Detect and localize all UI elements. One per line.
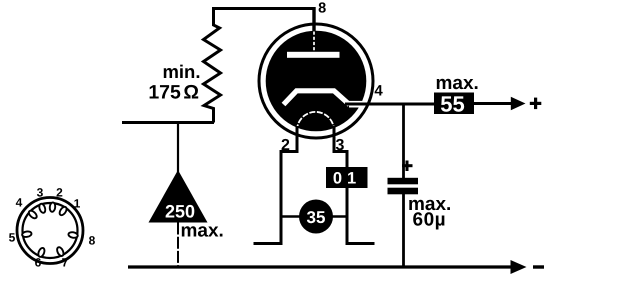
socket pin slot 5 [22, 231, 32, 238]
output box 55 [434, 93, 474, 115]
tube inner black disc [266, 31, 367, 132]
svg-text:35: 35 [307, 208, 326, 227]
svg-text:3: 3 [37, 185, 44, 199]
wire: junction down to surge triangle [177, 121, 179, 172]
svg-text:2: 2 [56, 185, 63, 199]
heater dome (white arc) [297, 112, 334, 131]
socket pin slot 8 [68, 231, 78, 238]
socket pin slot 7 [56, 246, 65, 257]
tube envelope circle [259, 24, 373, 138]
anode lead from pin 8 (outside) [312, 7, 315, 33]
wire: left input stub [122, 121, 214, 124]
white halo for pin4 wire over disc [349, 101, 364, 108]
wire: junction down to capacitor [402, 104, 405, 178]
anode lead inside disc (white dashes) [313, 32, 315, 53]
svg-text:min.: min. [162, 61, 200, 82]
tube socket diagram [9, 185, 96, 269]
svg-text:5: 5 [9, 230, 16, 244]
surge indicator triangle 250 max [149, 170, 208, 223]
tube V1 [254, 1, 384, 244]
svg-text:3: 3 [336, 137, 345, 154]
svg-text:60µ: 60µ [413, 210, 447, 231]
wire: capacitor to bottom rail [402, 194, 405, 267]
capacitor C1: plus sign [402, 161, 413, 172]
socket inner circle [23, 203, 78, 258]
svg-text:7: 7 [62, 255, 69, 269]
svg-text:1: 1 [74, 196, 81, 210]
wire: triangle to bottom rail [177, 223, 179, 268]
anode bar [287, 52, 340, 58]
svg-text:175Ω: 175Ω [148, 82, 199, 104]
wire: heater mid connection through 35 [281, 215, 347, 218]
svg-text:8: 8 [318, 1, 326, 17]
bottom rail arrowhead [511, 260, 527, 274]
label plus (output) [530, 98, 542, 110]
socket pin slot 1 [58, 206, 68, 217]
heater lead pin 2 [254, 126, 298, 244]
resistor box 01 [326, 167, 368, 188]
capacitor C1 top plate [388, 178, 419, 185]
svg-text:2: 2 [281, 137, 290, 154]
svg-text:4: 4 [16, 195, 23, 209]
socket pin slot 6 [37, 247, 45, 258]
svg-text:6: 6 [35, 255, 42, 269]
svg-text:8: 8 [89, 233, 96, 247]
label minus [533, 265, 544, 268]
wire: top horizontal from resistor to anode lead [212, 7, 316, 10]
capacitor C1 bottom plate [388, 188, 419, 195]
bottom rail wire [128, 265, 512, 268]
cathode hat [284, 91, 350, 105]
svg-text:4: 4 [374, 83, 383, 100]
svg-text:55: 55 [440, 91, 464, 116]
resistor R1 min.175ohm [204, 7, 221, 123]
svg-text:max.: max. [181, 221, 224, 242]
circle component 35 [299, 200, 333, 234]
socket pin slot 4 [28, 209, 39, 219]
socket outer circle [17, 198, 83, 264]
socket pin slot 2 [49, 202, 55, 212]
output arrowhead [511, 97, 526, 110]
svg-text:250: 250 [165, 202, 195, 222]
wire: output box to arrow [474, 102, 512, 105]
socket pin slot 3 [38, 203, 46, 214]
svg-text:01: 01 [333, 169, 361, 187]
wire: pin 4 to output box [345, 103, 434, 106]
heater lead pin 3 [334, 126, 375, 244]
